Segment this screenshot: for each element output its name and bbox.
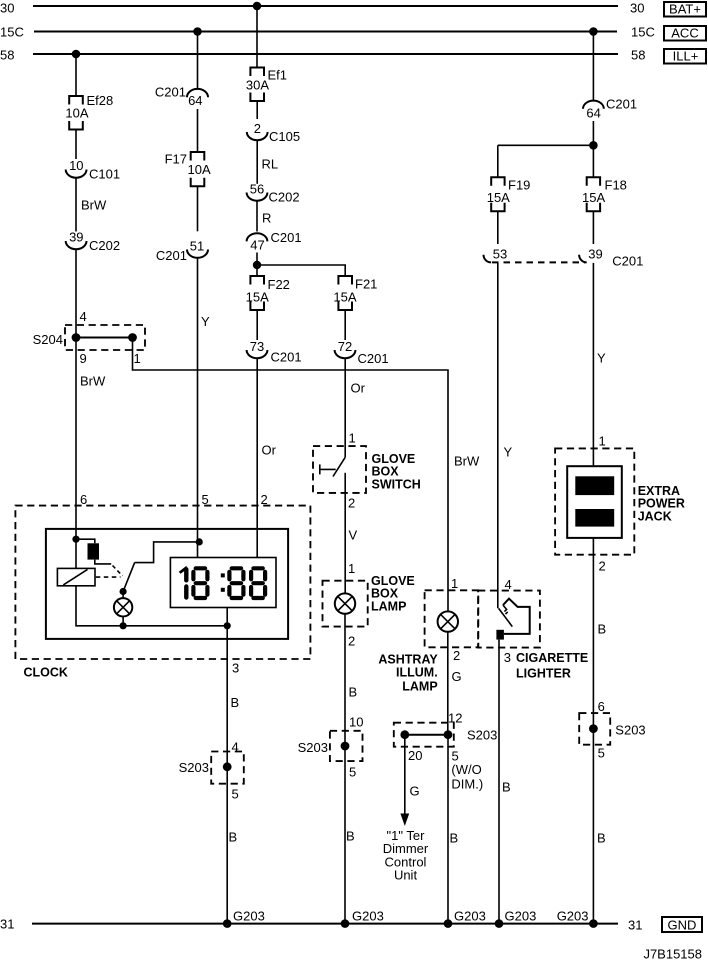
ground node G203 cigarette lighter — [495, 909, 537, 928]
terminal box BAT+ — [664, 2, 706, 17]
svg-text:R: R — [262, 211, 271, 226]
wire 58 to Ef28 — [75, 54, 77, 96]
fuse Ef28 10A — [65, 93, 113, 130]
connector 10 C101 — [66, 158, 120, 182]
svg-text:64: 64 — [586, 106, 600, 121]
svg-text:G: G — [410, 784, 420, 799]
svg-text:C101: C101 — [89, 167, 120, 182]
svg-text:Y: Y — [504, 445, 513, 460]
wire Ef1 to C105 — [256, 101, 258, 119]
svg-text:ASHTRAY: ASHTRAY — [378, 653, 438, 667]
svg-text:10: 10 — [69, 158, 83, 173]
svg-text:Ef28: Ef28 — [87, 93, 114, 108]
svg-text:G: G — [452, 669, 462, 684]
connector 56 C202 — [247, 182, 300, 205]
svg-text:2: 2 — [254, 121, 261, 136]
wire F22 to C201/73 — [256, 310, 258, 340]
svg-text:S204: S204 — [33, 332, 63, 347]
wire F17 to C201/51 — [197, 186, 199, 231]
wire junction to F18 — [592, 145, 594, 177]
relay coil box — [57, 568, 95, 585]
svg-text:64: 64 — [188, 93, 202, 108]
clock inner box — [46, 529, 288, 639]
svg-text:ILLUM.: ILLUM. — [396, 666, 438, 680]
svg-text:15C: 15C — [631, 25, 655, 40]
drawing number J7B15158 — [643, 947, 702, 960]
clock switch blade — [120, 538, 203, 595]
svg-text:S203: S203 — [298, 740, 328, 755]
svg-text:10: 10 — [349, 715, 363, 730]
svg-text:LAMP: LAMP — [402, 679, 437, 693]
splice S203 (jack) — [579, 713, 645, 745]
svg-text:15A: 15A — [487, 190, 510, 205]
svg-text:15A: 15A — [246, 290, 269, 305]
svg-text:5: 5 — [598, 746, 605, 761]
splice S203 (glove box lamp) — [298, 731, 363, 761]
svg-text:Y: Y — [201, 314, 210, 329]
svg-text:BrW: BrW — [81, 198, 107, 213]
clock illumination lamp — [114, 592, 132, 626]
cigarette lighter box — [478, 591, 588, 681]
wire display to ground rail — [226, 608, 228, 626]
node fuse feed junction — [253, 261, 261, 269]
connector dashed link C201 — [492, 261, 585, 263]
wire BrW C202 to S204 pin 4 — [76, 249, 87, 337]
connector 47 C201 (inverted) — [247, 230, 302, 253]
svg-text:2: 2 — [348, 634, 355, 649]
connector 64 C201 (col G) — [583, 97, 637, 121]
svg-text:58: 58 — [0, 48, 14, 63]
fuse F17 10A — [165, 152, 211, 187]
svg-text:LIGHTER: LIGHTER — [516, 666, 571, 680]
seven segment digit 8 (second) — [193, 568, 207, 598]
wire G arrow to dimmer control unit — [383, 735, 429, 883]
connector 53 C201 (inline) — [484, 247, 508, 263]
ground node G203 clock — [223, 909, 265, 928]
svg-text:BrW: BrW — [80, 374, 106, 389]
wire C201/47 to junction — [256, 253, 258, 266]
svg-text:JACK: JACK — [638, 510, 672, 524]
svg-text:B: B — [450, 831, 459, 846]
svg-text:C201: C201 — [271, 230, 302, 245]
svg-text:B: B — [231, 695, 240, 710]
bus 15C line — [0, 25, 655, 40]
svg-text:47: 47 — [250, 238, 264, 253]
svg-text:F21: F21 — [355, 277, 377, 292]
svg-text:30: 30 — [0, 1, 14, 16]
svg-text:6: 6 — [598, 699, 605, 714]
svg-text:SWITCH: SWITCH — [372, 477, 421, 491]
wire F19 feed from junction — [497, 145, 499, 177]
svg-text:DIM.): DIM.) — [451, 777, 483, 792]
extra power jack box — [555, 448, 685, 554]
svg-text:5: 5 — [232, 787, 239, 802]
svg-text:31: 31 — [628, 918, 642, 933]
svg-text:51: 51 — [190, 239, 204, 254]
splice S203 (ashtray/dimmer) — [394, 723, 498, 792]
wire F21 to C201/72 — [344, 310, 346, 340]
svg-text:G203: G203 — [505, 909, 537, 924]
svg-text:G203: G203 — [233, 909, 265, 924]
svg-text:15C: 15C — [0, 25, 24, 40]
svg-text:58: 58 — [631, 48, 645, 63]
splice S203 (clock) — [179, 752, 244, 784]
wire pin6 to relay coil — [75, 506, 77, 569]
svg-text:(W/O: (W/O — [451, 762, 481, 777]
svg-text:10A: 10A — [65, 106, 88, 121]
connector 39 C201 (inline) — [579, 247, 643, 269]
svg-text:CLOCK: CLOCK — [24, 666, 68, 680]
node clock pin3 ground wire on S203 — [227, 626, 239, 924]
svg-text:F19: F19 — [508, 178, 530, 193]
seven segment digit 1 — [179, 566, 187, 598]
svg-text:C201: C201 — [612, 254, 643, 269]
svg-text:G203: G203 — [557, 909, 589, 924]
svg-text:B: B — [349, 685, 358, 700]
clock display box — [170, 558, 276, 608]
seven segment digit 8 (third) — [229, 568, 243, 598]
wire Ef28 to C101 — [75, 130, 77, 160]
glove box lamp box — [323, 574, 415, 627]
svg-text:F22: F22 — [268, 277, 290, 292]
connector 39 C202 — [66, 230, 120, 254]
wire BrW S204 pin 1 to ashtray lamp — [133, 338, 481, 612]
bus 58 line — [0, 48, 645, 63]
svg-text:56: 56 — [250, 182, 264, 197]
svg-text:5: 5 — [349, 765, 356, 780]
wire Y connector 53 to cigarette lighter pin 4 — [498, 263, 513, 608]
svg-text:POWER: POWER — [638, 497, 685, 511]
svg-text:C201: C201 — [271, 350, 302, 365]
svg-text:BAT+: BAT+ — [669, 2, 701, 17]
bus 30 line — [0, 1, 644, 16]
wire C201 to F17 — [197, 109, 199, 152]
glove box switch box — [313, 446, 421, 493]
node on 15C bus col G — [589, 27, 598, 36]
svg-text:B: B — [502, 780, 511, 795]
svg-text:B: B — [597, 831, 606, 846]
wire Y connector 39 to extra power jack pin 1 — [593, 263, 606, 466]
wire Or C201/73 to clock pin 2 — [257, 358, 276, 557]
svg-text:B: B — [229, 830, 238, 845]
splice S204 — [33, 325, 145, 366]
svg-text:1: 1 — [451, 576, 458, 591]
svg-text:C202: C202 — [269, 190, 300, 205]
bus 31 ground line — [0, 917, 642, 933]
svg-text:20: 20 — [408, 748, 422, 763]
display colon — [221, 573, 225, 591]
connector 51 C201 — [156, 239, 208, 264]
ground node G203 glove box lamp — [341, 909, 384, 928]
wire C201/64 to junction — [592, 121, 594, 145]
terminal box GND — [662, 917, 702, 933]
connector 64 C201 (col B) — [155, 85, 208, 109]
ashtray illum lamp box — [378, 590, 478, 693]
svg-text:15A: 15A — [582, 190, 605, 205]
svg-text:C105: C105 — [269, 129, 300, 144]
svg-text:BrW: BrW — [454, 454, 480, 469]
svg-text:73: 73 — [250, 339, 264, 354]
svg-text:53: 53 — [493, 247, 507, 262]
fuse Ef1 30A — [246, 68, 287, 102]
connector 73 C201 — [247, 339, 302, 365]
svg-text:J7B15158: J7B15158 — [643, 947, 702, 960]
extra power jack contacts — [567, 466, 622, 538]
svg-text:9: 9 — [80, 351, 87, 366]
svg-text:2: 2 — [599, 559, 606, 574]
connector 72 C201 — [335, 339, 389, 366]
dashed actuator links — [96, 566, 123, 578]
svg-text:S203: S203 — [179, 760, 209, 775]
svg-text:ACC: ACC — [671, 26, 698, 41]
glove box switch contacts — [320, 457, 345, 476]
wire B glove box lamp to S203 — [345, 614, 363, 924]
svg-text:12: 12 — [448, 711, 462, 726]
svg-text:B: B — [346, 829, 355, 844]
svg-text:Ef1: Ef1 — [268, 68, 288, 83]
wire branch to F21 — [257, 265, 345, 276]
ground node G203 jack — [557, 909, 598, 928]
wire 30 to Ef1 — [256, 6, 258, 68]
wire B jack pin 2 to S203 — [593, 538, 606, 924]
fuse F22 15A — [246, 276, 290, 310]
svg-text:3: 3 — [504, 650, 511, 665]
node on 58 bus — [72, 50, 81, 59]
svg-text:1: 1 — [599, 434, 606, 449]
svg-text:RL: RL — [262, 157, 279, 172]
svg-text:Unit: Unit — [394, 868, 418, 883]
svg-text:39: 39 — [588, 247, 602, 262]
svg-text:GND: GND — [668, 918, 697, 933]
wire 15C to C201/64 right — [592, 32, 594, 101]
wire B cigarette lighter pin 3 to ground — [499, 640, 511, 924]
node on 15C bus col B — [193, 27, 202, 36]
wire 15C to C201/64 — [197, 32, 199, 89]
svg-text:ILL+: ILL+ — [673, 49, 699, 64]
ashtray illum lamp — [438, 611, 458, 631]
node clock pin6 internal — [72, 536, 79, 543]
clock internal ground rail — [76, 586, 231, 630]
svg-text:30A: 30A — [246, 78, 269, 93]
terminal box ILL+ — [664, 49, 706, 64]
ground node G203 ashtray — [444, 909, 486, 928]
svg-text:G203: G203 — [454, 909, 486, 924]
svg-text:C201: C201 — [606, 97, 637, 112]
svg-text:F18: F18 — [605, 178, 627, 193]
wire junction to F22 — [256, 265, 258, 276]
svg-text:LAMP: LAMP — [371, 599, 406, 613]
svg-text:C202: C202 — [89, 238, 120, 253]
fuse F18 15A — [582, 177, 627, 211]
svg-text:Or: Or — [262, 443, 277, 458]
svg-text:31: 31 — [0, 917, 14, 932]
svg-text:2: 2 — [453, 648, 460, 663]
wire junction to F19 branch — [498, 144, 594, 146]
wire Or C201/72 to glove box switch pin 1 — [345, 358, 365, 457]
svg-text:C201: C201 — [358, 351, 389, 366]
wire F19 to connector 53 — [497, 211, 499, 244]
node fuse feed junction right — [589, 141, 598, 150]
wire BrW C101 to C202 — [76, 178, 107, 232]
clock capacitor black rect — [76, 539, 111, 564]
wire V switch pin 2 to glove box lamp pin 1 — [345, 473, 357, 593]
terminal box ACC — [664, 26, 706, 41]
fuse F19 15A — [487, 177, 531, 211]
svg-text:39: 39 — [69, 230, 83, 245]
node on 30 bus col C — [253, 2, 262, 11]
svg-text:10A: 10A — [188, 162, 211, 177]
wire G ashtray lamp pin 2 to S203 — [448, 632, 463, 735]
svg-text:C201: C201 — [155, 85, 186, 100]
svg-text:Or: Or — [351, 381, 366, 396]
connector 2 C105 — [247, 121, 300, 144]
wire RL C105 to C202/56 — [257, 140, 278, 184]
svg-text:4: 4 — [80, 309, 87, 324]
svg-text:Y: Y — [597, 351, 606, 366]
svg-text:F17: F17 — [165, 152, 187, 167]
wire R C202 to C201/47 — [257, 201, 271, 232]
svg-text:C201: C201 — [156, 248, 187, 263]
svg-text:S203: S203 — [615, 723, 645, 738]
svg-text:1: 1 — [134, 351, 141, 366]
clock outer dashed box — [15, 506, 310, 680]
wire F18 to connector 39 — [592, 211, 594, 244]
svg-text:2: 2 — [348, 496, 355, 511]
svg-text:30: 30 — [630, 1, 644, 16]
svg-text:S203: S203 — [467, 728, 497, 743]
seven segment digit 8 (fourth) — [251, 568, 265, 598]
glove box lamp — [335, 593, 355, 613]
svg-text:G203: G203 — [352, 909, 384, 924]
wire Y C201/51 to clock pin 5 — [198, 258, 211, 558]
wire B S203 pin 5 to ground — [448, 735, 458, 924]
cigarette lighter element — [496, 599, 529, 640]
svg-text:V: V — [349, 528, 358, 543]
svg-text:15A: 15A — [333, 290, 356, 305]
svg-text:1: 1 — [348, 561, 355, 576]
svg-text:72: 72 — [338, 339, 352, 354]
wire BrW S204 pin 9 to clock pin 6 — [76, 338, 106, 508]
svg-text:3: 3 — [232, 661, 239, 676]
svg-text:1: 1 — [349, 431, 356, 446]
svg-text:B: B — [598, 622, 607, 637]
fuse F21 15A — [333, 276, 377, 310]
svg-text:CIGARETTE: CIGARETTE — [516, 651, 588, 665]
